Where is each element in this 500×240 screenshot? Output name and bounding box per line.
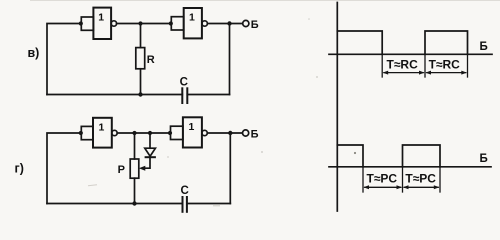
svg-text:Б: Б — [251, 19, 259, 31]
dimension extension line 2 — [424, 54, 426, 77]
svg-text:Р: Р — [118, 164, 125, 176]
terminal: output B — [243, 20, 249, 26]
axis: bottom waveform baseline — [329, 166, 491, 168]
svg-text:Б: Б — [251, 128, 259, 140]
dimension extension line 2 — [402, 167, 404, 192]
inverter D2.1 input stub (tied inputs) — [81, 126, 93, 139]
wire: diode anode lead — [149, 133, 151, 148]
svg-text:T≈RC: T≈RC — [387, 58, 419, 72]
inverter D1.1 input stub (tied inputs) — [81, 17, 93, 30]
node: gate D1.1 input junction — [79, 21, 83, 25]
node: bottom rail junction — [138, 92, 142, 96]
waveform: output of circuit (v) — [337, 31, 382, 54]
wire: gate D1.1 output to gate D1.2 input — [117, 23, 171, 25]
node: diode tap junction — [148, 131, 152, 135]
inversion bubble D2.1 — [112, 130, 117, 135]
dimension extension line 1 — [381, 54, 383, 77]
wire: output to terminal — [207, 23, 242, 25]
wire: feedback loop left side — [47, 24, 81, 95]
diode VD1 cathode bar — [146, 156, 155, 158]
wire: bottom rail left of C — [47, 203, 183, 205]
wire: bottom rail right of C — [187, 203, 230, 205]
inverter D2.2 input stub (tied inputs) — [171, 126, 183, 139]
inverter D2.1 body — [93, 118, 112, 148]
svg-text:R: R — [147, 54, 155, 66]
diode VD1 triangle — [145, 148, 156, 156]
node: gate D2.2 input junction — [168, 131, 172, 135]
node: output junction — [228, 131, 232, 135]
axis: top waveform baseline — [329, 53, 492, 55]
wire: feedback loop left side — [47, 133, 81, 204]
svg-text:1: 1 — [99, 122, 105, 134]
node: potentiometer tap junction — [132, 131, 136, 135]
wire: potentiometer bottom lead — [134, 178, 136, 203]
dimension extension line 3 — [467, 54, 469, 77]
wire: bottom rail right of C — [187, 94, 229, 96]
svg-text:T≈PC: T≈PC — [405, 171, 436, 185]
node: gate D1.2 input junction — [169, 21, 173, 25]
dimension arrow T=RC interval 1 — [384, 72, 423, 74]
wire: resistor bottom lead — [140, 69, 142, 95]
resistor R body — [136, 48, 145, 69]
inversion bubble D1.2 — [202, 21, 207, 26]
svg-text:C: C — [180, 76, 188, 88]
wire: diode cathode to wiper — [143, 157, 151, 168]
node: bottom rail junction — [132, 201, 136, 205]
svg-text:1: 1 — [189, 121, 195, 133]
dimension arrow T=PC interval 1 — [365, 186, 401, 188]
wire: right side down — [229, 24, 231, 95]
wire: gate D2.1 output to gate D2.2 input — [117, 132, 170, 134]
svg-text:T≈RC: T≈RC — [429, 58, 461, 72]
dimension extension line 1 — [362, 167, 364, 192]
wire: potentiometer top lead — [134, 133, 136, 159]
terminal: output B — [243, 130, 249, 136]
node: output junction — [227, 21, 231, 25]
node: resistor tap junction — [138, 21, 142, 25]
svg-text:1: 1 — [98, 12, 104, 24]
wire: bottom rail left of C — [47, 94, 182, 96]
capacitor C plates — [181, 88, 183, 103]
potentiometer P body — [130, 159, 139, 178]
potentiometer wiper arrowhead — [139, 166, 146, 171]
svg-text:г): г) — [15, 161, 24, 175]
inverter D1.2 input stub (tied inputs) — [171, 17, 183, 30]
wire: output to terminal — [207, 132, 242, 134]
inversion bubble D2.2 — [202, 130, 207, 135]
inverter D1.1 body — [93, 8, 111, 39]
dimension arrow T=RC interval 2 — [427, 72, 466, 74]
svg-text:1: 1 — [189, 12, 195, 24]
inverter D1.2 body — [184, 8, 202, 38]
capacitor C plates — [182, 197, 184, 212]
dimension arrow T=PC interval 2 — [404, 186, 438, 188]
svg-text:Б: Б — [480, 153, 488, 165]
svg-text:T≈PC: T≈PC — [367, 171, 398, 185]
wire: resistor top lead — [140, 24, 142, 48]
svg-text:Б: Б — [480, 41, 488, 53]
svg-text:C: C — [181, 185, 189, 197]
wire: right side down — [229, 133, 231, 204]
node: gate D2.1 input junction — [79, 131, 83, 135]
waveform: output of circuit (g) — [337, 145, 363, 167]
inverter D2.2 body — [183, 117, 202, 147]
svg-text:в): в) — [28, 46, 40, 60]
dimension extension line 3 — [439, 167, 441, 192]
axis: vertical time-diagram border — [336, 3, 338, 212]
inversion bubble D1.1 — [111, 21, 116, 26]
